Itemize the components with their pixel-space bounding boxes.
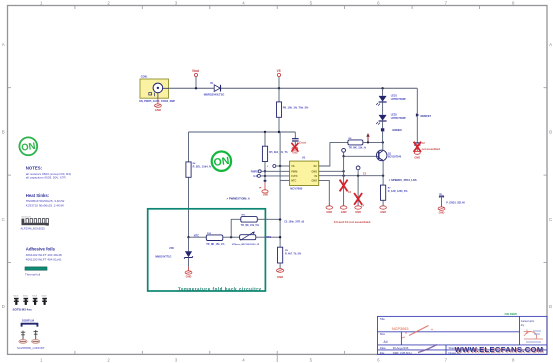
- capacitor C4 (not assembled): [358, 176, 365, 208]
- svg-text:CON1: CON1: [141, 76, 148, 79]
- screws row: [13, 295, 48, 311]
- ground (Cout): [292, 147, 298, 154]
- svg-text:V5: V5: [277, 69, 281, 73]
- svg-text:ON: ON: [213, 155, 230, 169]
- svg-text:NTC: NTC: [266, 235, 271, 239]
- svg-text:A4: A4: [384, 340, 388, 344]
- ground (below R5): [259, 182, 269, 197]
- wire rail to C2: [416, 88, 418, 143]
- svg-text:Size: Size: [380, 332, 386, 336]
- IC U1 NCV7680: [290, 155, 319, 190]
- zener diode ZD6: [155, 237, 192, 267]
- node junction base wire: [342, 155, 344, 157]
- svg-text:TR_NK_15k_1%: TR_NK_15k_1%: [206, 243, 225, 246]
- svg-text:D: D: [2, 304, 5, 309]
- svg-text:LRTB4TS6RF: LRTB4TS6RF: [391, 117, 407, 120]
- svg-text:Temperature fold back circuitr: Temperature fold back circuitry: [178, 286, 262, 291]
- transistor Q1: [376, 150, 401, 161]
- node junction pin6-emitter: [382, 175, 384, 177]
- svg-text:MBRS2040LT3G: MBRS2040LT3G: [204, 93, 225, 97]
- svg-text:GND: GND: [186, 275, 192, 279]
- notes text: [26, 166, 71, 208]
- svg-text:LRTB4TS6RF: LRTB4TS6RF: [391, 98, 407, 101]
- svg-text:MOSFET: MOSFET: [421, 115, 432, 118]
- svg-text:IN: IN: [315, 175, 318, 178]
- ground (connector): [155, 98, 162, 112]
- svg-text:GND: GND: [311, 179, 317, 182]
- svg-text:SO8FLM: SO8FLM: [22, 319, 35, 323]
- svg-text:A: A: [2, 42, 5, 47]
- resistor R8: [330, 138, 383, 149]
- svg-text:not assembled: not assembled: [422, 147, 441, 151]
- wire emitter: [382, 161, 384, 176]
- node junction pin6-C4: [357, 175, 359, 177]
- svg-text:NOTES:: NOTES:: [26, 166, 43, 171]
- svg-text:U1: U1: [302, 155, 306, 159]
- node junction Vbat: [195, 87, 197, 89]
- svg-text:PWM: PWM: [291, 170, 297, 173]
- pin 6 wire: [319, 175, 383, 177]
- svg-text:R6_10k_1%_Thk_5%: R6_10k_1%_Thk_5%: [283, 105, 309, 109]
- svg-text:GND: GND: [311, 170, 317, 173]
- not-assembled X (C2): [414, 142, 421, 152]
- wire vert x280: [279, 132, 281, 220]
- wire row2: [189, 131, 296, 133]
- svg-text:R_12R_1206_5%: R_12R_1206_5%: [388, 190, 409, 193]
- svg-text:D: D: [549, 304, 552, 309]
- SO8FLM bracket: [22, 319, 38, 327]
- wire collector: [382, 142, 384, 150]
- power arrow flag: [366, 133, 369, 143]
- svg-text:NTherm_B57332V5103_J5: NTherm_B57332V5103_J5: [232, 244, 260, 246]
- pin 7 wire: [319, 170, 344, 172]
- svg-text:4061100 WLFT 404 61x61: 4061100 WLFT 404 61x61: [26, 257, 62, 261]
- ground (C3): [340, 206, 347, 214]
- test point TP2: [356, 166, 366, 176]
- capacitor Cout (not assembled): [292, 132, 306, 147]
- pin 1 wire + port: [267, 165, 290, 169]
- node junction C5: [279, 218, 281, 220]
- svg-text:> PWMEXT-DIM_A: > PWMEXT-DIM_A: [227, 196, 250, 200]
- svg-text:GND: GND: [326, 210, 332, 214]
- svg-text:BCV29T346: BCV29T346: [388, 155, 402, 158]
- ground (pin5): [326, 206, 333, 214]
- pin 4 wire NTC: [280, 179, 289, 181]
- wire pin8 route: [319, 142, 330, 166]
- wire base: [344, 155, 379, 157]
- svg-text:Thermal foil: Thermal foil: [25, 273, 40, 277]
- svg-text:NTC: NTC: [291, 179, 296, 182]
- svg-text:R5_3k3_1%_Th: R5_3k3_1%_Th: [269, 151, 288, 154]
- svg-text:GND: GND: [263, 194, 269, 197]
- node junction pin3: [264, 175, 266, 177]
- svg-text:> SPEED6_4TO4_LK6: > SPEED6_4TO4_LK6: [389, 178, 417, 182]
- svg-text:NMF_LVB.SCH: NMF_LVB.SCH: [393, 351, 412, 355]
- ground (ZD6): [185, 267, 192, 279]
- node junction pin7-C3: [342, 170, 344, 172]
- TITLE BLOCK: [378, 312, 548, 355]
- svg-text:R_SEL_10k4_%: R_SEL_10k4_%: [193, 166, 212, 169]
- svg-text:Adhesive foils: Adhesive foils: [26, 246, 56, 251]
- svg-text:FLTD: FLTD: [291, 175, 297, 178]
- node junction pin6-C3: [342, 175, 344, 177]
- svg-text:WWW.ELECFANS.COM: WWW.ELECFANS.COM: [455, 345, 543, 354]
- wire main rail: [169, 87, 418, 89]
- svg-text:GND: GND: [380, 210, 386, 214]
- svg-text:ON: ON: [21, 141, 37, 154]
- svg-text:A: A: [549, 42, 552, 47]
- ferrite pad below R5: [264, 180, 267, 182]
- svg-text:PWRD: PWRD: [251, 170, 259, 173]
- svg-text:TR_NK_15k_5%: TR_NK_15k_5%: [241, 224, 260, 227]
- node junction row2-R5: [264, 131, 266, 133]
- svg-text:GND: GND: [355, 210, 361, 214]
- resistor R11: [231, 215, 280, 238]
- svg-text:GND: GND: [292, 152, 297, 154]
- svg-text:Cancel opts: Cancel opts: [521, 320, 535, 323]
- svg-text:Date:: Date:: [380, 346, 387, 350]
- power flag Vbat: [192, 69, 200, 88]
- net marker MOSFET: [416, 113, 431, 118]
- elecfans logo blob: [524, 330, 544, 343]
- resistor R9: [278, 247, 302, 269]
- node junction pin2: [264, 170, 266, 172]
- test point jack TP3: [439, 194, 466, 207]
- svg-text:GND: GND: [277, 275, 283, 279]
- node junction collector-R8: [382, 141, 384, 143]
- LED LED1: [376, 88, 406, 105]
- svg-text:P_GND1_SELAV: P_GND1_SELAV: [446, 201, 465, 204]
- watermark swoosh: [402, 326, 437, 353]
- svg-text:B: B: [549, 129, 552, 134]
- ON logo small: [19, 137, 37, 155]
- node junction pin1: [279, 165, 281, 167]
- thermistor RT1: [231, 232, 280, 247]
- svg-text:C: C: [549, 217, 552, 222]
- diode D1: [204, 82, 225, 96]
- svg-text:NCP3063: NCP3063: [392, 327, 408, 331]
- svg-text:Title: Title: [380, 317, 385, 321]
- svg-text:K233710 90x90x25, 2.4K/W: K233710 90x90x25, 2.4K/W: [26, 203, 64, 207]
- not-assembled X (C4): [354, 193, 362, 205]
- node junction NTC-left: [187, 236, 189, 238]
- temperature fold back box: [148, 209, 266, 292]
- test point TP1: [342, 148, 346, 156]
- pin 2 wire PWRD: [251, 170, 290, 174]
- svg-text:NCV7680: NCV7680: [290, 186, 303, 190]
- wire vert to R9: [279, 220, 281, 248]
- capacitor C2 (not assembled): [414, 142, 440, 151]
- resistor R5: [262, 132, 288, 180]
- svg-text:C3 and C4 not assembled: C3 and C4 not assembled: [334, 220, 371, 224]
- svg-text:ALP2346_BGA5025: ALP2346_BGA5025: [21, 226, 46, 230]
- watermark text: [455, 345, 544, 355]
- svg-text:C5_100n_X7R_d5: C5_100n_X7R_d5: [284, 220, 305, 223]
- capacitor C3 (not assembled): [344, 156, 352, 206]
- svg-text:30-Aug-2016: 30-Aug-2016: [393, 346, 409, 350]
- pin 5 route to ground: [319, 180, 330, 206]
- node junction rail-LED: [381, 87, 383, 89]
- svg-text:all capacitors 0603, 50V, X7R: all capacitors 0603, 50V, X7R: [26, 175, 67, 179]
- svg-text:GND: GND: [414, 156, 420, 160]
- svg-text:SC: SC: [314, 165, 318, 168]
- port GREEN: [381, 121, 402, 142]
- ON logo watermark center: [212, 152, 231, 171]
- svg-text:GND: GND: [439, 210, 445, 214]
- not-assembled X (C3): [340, 180, 348, 192]
- svg-text:SOTB M3 4xx: SOTB M3 4xx: [13, 308, 33, 312]
- svg-text:File:: File:: [380, 351, 385, 355]
- svg-text:GND: GND: [341, 210, 347, 214]
- svg-text:GREEN: GREEN: [392, 128, 401, 132]
- ground (TP3): [438, 207, 445, 214]
- svg-text:Heat Sinks:: Heat Sinks:: [26, 193, 50, 198]
- power flag V5: [277, 69, 281, 88]
- node junction V5: [278, 87, 280, 89]
- ground (C2): [414, 151, 420, 159]
- washer screws: [17, 330, 45, 350]
- node junction thermistor-R9: [279, 236, 281, 238]
- svg-text:TR_NK_15k_%: TR_NK_15k_%: [349, 146, 367, 149]
- resistor R4: [186, 132, 212, 237]
- resistor R7: [381, 176, 409, 206]
- svg-text:B: B: [2, 129, 5, 134]
- MAIN CIRCUIT: [139, 69, 465, 291]
- connector CON1: [139, 76, 175, 103]
- svg-text:Vbat: Vbat: [192, 69, 200, 73]
- heatsink symbol: [21, 217, 49, 231]
- svg-text:ZD6: ZD6: [169, 247, 174, 250]
- adhesive foils text: [26, 246, 62, 261]
- ground (R7): [380, 206, 387, 214]
- svg-text:ON_PWR5_JACK_PJ302_SMP: ON_PWR5_JACK_PJ302_SMP: [139, 100, 175, 103]
- ground (R9): [277, 269, 284, 279]
- pin 3 wire ILS: [253, 174, 289, 178]
- svg-text:ON SEMI: ON SEMI: [505, 312, 517, 316]
- svg-text:Cout: Cout: [299, 140, 306, 144]
- resistor R10: [189, 233, 232, 246]
- resistor R6: [277, 88, 310, 132]
- ground (C4): [355, 206, 362, 214]
- svg-text:R_4k7_Th_5%: R_4k7_Th_5%: [285, 253, 302, 256]
- LED LED2: [376, 102, 406, 124]
- thermal foil bar: [25, 267, 47, 277]
- node junction R10-right: [230, 236, 232, 238]
- node junction row2-R6: [278, 131, 280, 133]
- svg-text:VS: VS: [291, 165, 295, 168]
- svg-text:C: C: [2, 217, 5, 222]
- svg-text:GND: GND: [155, 108, 161, 112]
- not-assembled X (Cout): [291, 143, 298, 152]
- svg-text:MMSZ4V7T1G: MMSZ4V7T1G: [155, 255, 171, 258]
- svg-text:SC2P0806_LODONT: SC2P0806_LODONT: [17, 346, 45, 350]
- svg-text:ILS: ILS: [253, 175, 257, 178]
